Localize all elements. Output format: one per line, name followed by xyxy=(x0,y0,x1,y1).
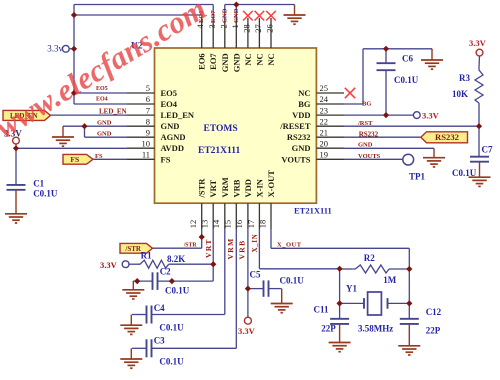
svg-text:Y1: Y1 xyxy=(346,284,357,294)
svg-text:GND: GND xyxy=(97,120,112,127)
svg-text:RS232: RS232 xyxy=(359,130,379,138)
svg-text:/STR: /STR xyxy=(124,245,142,253)
svg-text:2: 2 xyxy=(218,24,228,28)
svg-text:EO6: EO6 xyxy=(197,53,207,70)
svg-text:NC: NC xyxy=(254,53,264,65)
svg-text:22P: 22P xyxy=(426,326,441,336)
svg-text:8: 8 xyxy=(146,116,150,126)
svg-text:12: 12 xyxy=(188,220,198,229)
svg-text:EO5: EO5 xyxy=(161,88,178,98)
svg-text:24: 24 xyxy=(320,94,329,104)
svg-text:3.3V: 3.3V xyxy=(469,38,487,48)
svg-text:C12: C12 xyxy=(426,307,442,317)
svg-text:VRM: VRM xyxy=(226,237,235,259)
svg-text:6: 6 xyxy=(146,94,150,104)
svg-text:3.3V: 3.3V xyxy=(100,260,118,270)
svg-text:3: 3 xyxy=(207,24,217,28)
svg-text:VRB: VRB xyxy=(231,179,241,197)
svg-text:NC: NC xyxy=(266,53,276,65)
svg-text:R2: R2 xyxy=(364,253,375,263)
svg-text:GND: GND xyxy=(221,8,228,23)
svg-text:VDD: VDD xyxy=(243,179,253,197)
svg-text:X_IN: X_IN xyxy=(251,234,259,253)
svg-text:EO4: EO4 xyxy=(96,97,108,103)
svg-text:27: 27 xyxy=(253,24,263,33)
svg-text:BG: BG xyxy=(298,99,311,109)
svg-text:AVDD: AVDD xyxy=(161,143,184,153)
svg-text:GND: GND xyxy=(358,142,373,149)
svg-text:1: 1 xyxy=(230,24,240,28)
svg-text:GND: GND xyxy=(231,53,241,72)
svg-text:GND: GND xyxy=(292,143,311,153)
svg-text:9: 9 xyxy=(146,127,150,137)
svg-text:C0.1U: C0.1U xyxy=(159,323,184,333)
svg-text:28: 28 xyxy=(241,24,251,33)
svg-text:16: 16 xyxy=(234,220,244,229)
svg-text:LED_EN: LED_EN xyxy=(99,108,127,116)
svg-text:AGND: AGND xyxy=(161,132,186,142)
svg-text:1M: 1M xyxy=(383,275,397,285)
svg-text:C2: C2 xyxy=(160,267,171,277)
svg-text:GND: GND xyxy=(220,53,230,72)
svg-text:NC: NC xyxy=(243,53,253,65)
svg-text:R3: R3 xyxy=(459,73,470,83)
svg-text:RS232: RS232 xyxy=(287,132,311,142)
svg-text:C1: C1 xyxy=(33,179,44,189)
svg-text:22P: 22P xyxy=(321,324,336,334)
svg-text:/RESET: /RESET xyxy=(279,121,311,131)
svg-text:C4: C4 xyxy=(154,303,165,313)
svg-text:25: 25 xyxy=(320,83,329,93)
svg-text:C0.1U: C0.1U xyxy=(394,75,419,85)
svg-text:11: 11 xyxy=(142,150,150,160)
svg-text:R1: R1 xyxy=(141,251,152,261)
svg-text:15: 15 xyxy=(223,220,233,229)
svg-text:C3: C3 xyxy=(154,336,165,346)
svg-text:17: 17 xyxy=(246,220,256,228)
svg-text:/RST: /RST xyxy=(357,120,373,127)
svg-text:14: 14 xyxy=(211,219,221,228)
svg-text:3.3V: 3.3V xyxy=(238,326,256,336)
svg-text:20: 20 xyxy=(320,138,329,148)
svg-text:26: 26 xyxy=(265,24,275,33)
svg-text:22: 22 xyxy=(320,116,329,126)
svg-text:LED_EN: LED_EN xyxy=(161,110,195,120)
svg-text:X-OUT: X-OUT xyxy=(266,170,276,198)
svg-text:3.3v: 3.3v xyxy=(47,44,63,54)
svg-text:3.3V: 3.3V xyxy=(422,111,440,121)
svg-text:/STR: /STR xyxy=(183,243,198,249)
svg-text:C7: C7 xyxy=(482,145,493,155)
svg-text:10K: 10K xyxy=(452,89,468,99)
svg-text:13: 13 xyxy=(200,220,210,229)
svg-text:C5: C5 xyxy=(250,270,261,280)
svg-text:C0.1U: C0.1U xyxy=(33,189,58,199)
svg-text:GND: GND xyxy=(233,8,240,23)
svg-text:X-IN: X-IN xyxy=(254,178,264,197)
svg-text:C0.1U: C0.1U xyxy=(452,168,477,178)
svg-text:FS: FS xyxy=(95,153,103,160)
svg-text:C11: C11 xyxy=(314,305,330,315)
svg-text:ETOMS: ETOMS xyxy=(204,124,238,134)
svg-text:GND: GND xyxy=(97,131,112,138)
svg-text:5: 5 xyxy=(146,83,150,93)
svg-text:19: 19 xyxy=(320,150,329,160)
svg-text:18: 18 xyxy=(257,220,267,229)
svg-text:21: 21 xyxy=(320,127,329,137)
svg-text:VOUTS: VOUTS xyxy=(281,154,310,164)
svg-text:VRT: VRT xyxy=(204,238,213,258)
svg-text:BG: BG xyxy=(362,100,371,107)
svg-text:EO7: EO7 xyxy=(208,53,218,70)
svg-text:VRM: VRM xyxy=(220,177,230,197)
svg-text:C6: C6 xyxy=(402,54,413,64)
svg-text:C0.1U: C0.1U xyxy=(165,286,190,296)
svg-text:TP1: TP1 xyxy=(409,172,426,182)
svg-text:3.58MHz: 3.58MHz xyxy=(358,324,393,334)
svg-text:/STR: /STR xyxy=(197,178,207,199)
svg-text:EO4: EO4 xyxy=(161,99,178,109)
svg-text:8.2K: 8.2K xyxy=(167,254,185,264)
svg-text:VOUTS: VOUTS xyxy=(358,153,381,160)
svg-text:RS232: RS232 xyxy=(435,132,459,142)
svg-text:X_OUT: X_OUT xyxy=(277,241,302,248)
svg-text:GND: GND xyxy=(161,121,180,131)
svg-text:VDD: VDD xyxy=(292,110,310,120)
svg-text:ET21X111: ET21X111 xyxy=(294,206,332,216)
svg-text:VRB: VRB xyxy=(237,239,246,259)
svg-text:VRT: VRT xyxy=(208,180,218,198)
svg-text:7: 7 xyxy=(146,105,150,115)
svg-text:C0.1U: C0.1U xyxy=(280,276,305,286)
svg-text:ET21X111: ET21X111 xyxy=(198,146,240,156)
svg-text:NC: NC xyxy=(298,88,310,98)
svg-text:FS: FS xyxy=(161,154,171,164)
svg-text:10: 10 xyxy=(142,138,151,148)
svg-text:FS: FS xyxy=(70,155,79,164)
svg-text:C0.1U: C0.1U xyxy=(159,357,184,367)
svg-text:23: 23 xyxy=(320,105,329,115)
